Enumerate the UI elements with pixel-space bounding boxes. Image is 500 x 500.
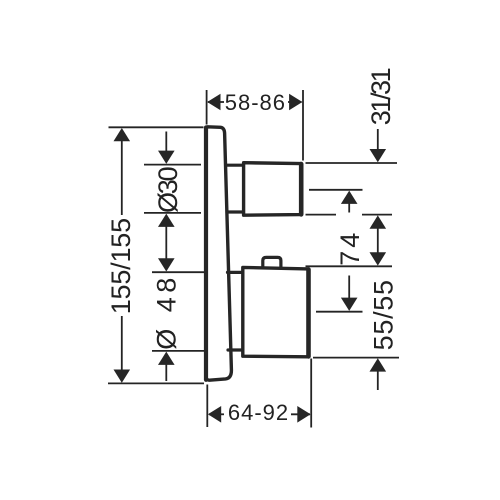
dim 58-86 left extension line bbox=[206, 90, 208, 125]
knob 1 stem bottom edge bbox=[227, 210, 242, 213]
arrow 155/155 bottom bbox=[114, 370, 131, 383]
svg-text:Ø 48: Ø 48 bbox=[152, 273, 182, 350]
knob 2 temperature stop tab bbox=[263, 257, 281, 266]
dim 155/155 dimension line bbox=[121, 130, 123, 215]
arrow 58-86 left bbox=[207, 94, 220, 111]
svg-text:55/55: 55/55 bbox=[369, 279, 399, 350]
arrow 64-92 left bbox=[208, 406, 221, 423]
dim 31/31 leader bbox=[377, 129, 379, 150]
dim 64-92 right extension line bbox=[310, 359, 312, 428]
right line L4 knob2 top bbox=[306, 265, 393, 267]
right line L6 knob2 bottom bbox=[313, 357, 399, 359]
dim Ø30 leader above bbox=[165, 132, 167, 152]
right line L5 knob2 axis bbox=[316, 311, 363, 313]
svg-text:58-86: 58-86 bbox=[225, 90, 286, 115]
dim Ø30 bottom extension line B bbox=[144, 212, 201, 214]
dim 74 leader above L5 arrow bbox=[348, 276, 350, 299]
svg-text:Ø30: Ø30 bbox=[153, 167, 183, 213]
dim Ø48 top extension line C bbox=[152, 271, 205, 273]
knob 1 stem top edge bbox=[227, 164, 243, 167]
arrow 55/55 (down onto L4) bbox=[370, 252, 387, 265]
arrow 55/55 partner (up onto L6) bbox=[370, 358, 387, 371]
right line L1 knob1 top bbox=[306, 162, 398, 164]
dim 64-92 left extension line bbox=[206, 385, 208, 428]
arrow Ø30 top (down onto A) bbox=[158, 151, 175, 164]
escutcheon plate (side view) bbox=[206, 127, 232, 380]
shared arrow shaft between B and C bbox=[165, 226, 167, 259]
dim 58-86 right extension line bbox=[302, 90, 304, 161]
arrow 155/155 top bbox=[114, 128, 131, 141]
dim 58-86 dimension line bbox=[208, 101, 224, 103]
svg-text:155/155: 155/155 bbox=[106, 218, 136, 314]
arrow 31/31 (down onto L1) bbox=[370, 149, 387, 162]
svg-text:74: 74 bbox=[335, 230, 365, 266]
dim Ø30 top extension line A bbox=[144, 164, 201, 166]
knob 2 stem top edge bbox=[228, 271, 243, 274]
arrow 74 bottom (down onto L5) bbox=[341, 298, 358, 311]
dim Ø48 leader below bbox=[165, 364, 167, 381]
escutcheon plate left (wall) edge emphasized bbox=[204, 128, 208, 380]
arrow Ø48 bottom (up onto D) bbox=[158, 352, 175, 365]
dim 74 leader below L2 arrow bbox=[348, 203, 350, 213]
arrow 31/31 partner (up onto L3) bbox=[370, 215, 387, 228]
arrow Ø30 bottom (up onto B) bbox=[158, 214, 175, 227]
dim Ø48 bottom extension line D bbox=[152, 350, 205, 352]
knob 2 stem bottom edge bbox=[228, 348, 242, 351]
svg-text:31/31: 31/31 bbox=[366, 68, 396, 125]
knob 1 body right face emphasized bbox=[299, 164, 304, 214]
dim 155/155 bottom extension line bbox=[108, 382, 204, 384]
dim 64-92 dimension line bbox=[209, 413, 224, 415]
arrow 74 top (up onto L2) bbox=[341, 191, 358, 204]
arrow 58-86 right bbox=[289, 94, 302, 111]
knob 1 body bbox=[244, 163, 301, 216]
knob 2 body right face emphasized bbox=[306, 270, 311, 357]
dim 55/55 leader below L6 bbox=[377, 371, 379, 391]
right line L2 knob1 axis bbox=[309, 189, 363, 191]
svg-text:64-92: 64-92 bbox=[228, 400, 289, 425]
arrow Ø48 top (down onto C) bbox=[158, 258, 175, 271]
knob 2 body bbox=[243, 267, 308, 356]
dim 31/31-55/55 shared shaft L3-L4 bbox=[377, 228, 379, 254]
arrow 64-92 right bbox=[297, 406, 310, 423]
right line L3 knob1 bottom bbox=[306, 214, 337, 216]
dim 155/155 top extension line bbox=[109, 126, 204, 128]
